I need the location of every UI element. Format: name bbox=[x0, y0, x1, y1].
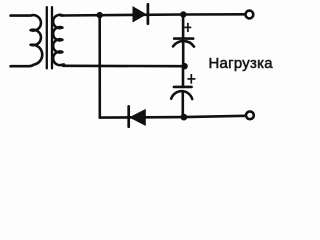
svg-text:Нагрузка: Нагрузка bbox=[209, 56, 274, 72]
